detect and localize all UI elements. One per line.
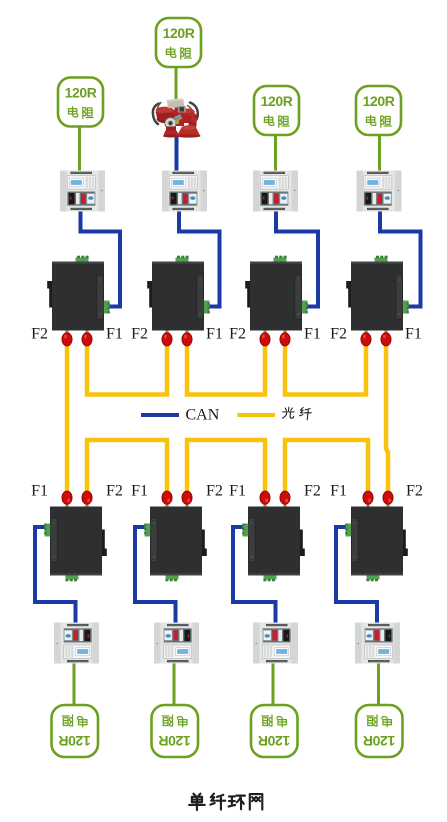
wire 120R box4 to module4 bbox=[378, 133, 381, 172]
svg-text:F2: F2 bbox=[106, 483, 123, 500]
svg-text:F1: F1 bbox=[31, 483, 48, 500]
svg-text:120R: 120R bbox=[65, 85, 97, 101]
120R terminator box 8 bbox=[356, 705, 403, 757]
module 1 bbox=[60, 171, 105, 212]
svg-text:F2: F2 bbox=[229, 326, 246, 343]
wire bconv4 to bmodule4 bbox=[336, 527, 377, 624]
converter 5 bbox=[44, 491, 107, 581]
module 7 bbox=[253, 623, 298, 664]
svg-text:CAN: CAN bbox=[186, 407, 220, 424]
svg-text:F2: F2 bbox=[131, 326, 148, 343]
fiber U top: conv1 F1 to conv2 F2 bbox=[87, 341, 167, 395]
120R terminator box 3 bbox=[254, 86, 299, 135]
wire fire monitor to module2 bbox=[175, 134, 179, 172]
converter 6 bbox=[144, 491, 207, 581]
wire module1 to conv1 bbox=[81, 210, 121, 307]
module 3 bbox=[253, 171, 298, 212]
svg-text:F1: F1 bbox=[405, 326, 422, 343]
wire module3 to conv3 bbox=[276, 210, 318, 307]
120R terminator box 7 bbox=[251, 705, 298, 757]
wire 120R box1 to module1 bbox=[78, 124, 81, 172]
module 2 bbox=[162, 171, 207, 212]
module 5 bbox=[54, 623, 99, 664]
svg-text:F1: F1 bbox=[229, 483, 246, 500]
120R terminator box 6 bbox=[152, 705, 199, 757]
120R terminator box 4 bbox=[356, 86, 401, 135]
svg-text:120R: 120R bbox=[363, 733, 395, 749]
wire bconv1 to bmodule1 bbox=[35, 527, 76, 624]
svg-text:F1: F1 bbox=[106, 326, 123, 343]
converter 2 bbox=[147, 256, 210, 346]
wire 120R box3 to module3 bbox=[274, 133, 277, 172]
svg-text:F2: F2 bbox=[206, 483, 223, 500]
converter 4 bbox=[346, 256, 409, 346]
svg-text:F2: F2 bbox=[304, 483, 321, 500]
converter 3 bbox=[245, 256, 308, 346]
svg-text:F1: F1 bbox=[206, 326, 223, 343]
svg-text:120R: 120R bbox=[363, 93, 395, 109]
legend fiber text 光纤 bbox=[282, 407, 295, 418]
converter 1 bbox=[47, 256, 110, 346]
wire bmodule1 to 120R box5 bbox=[73, 662, 76, 707]
fiber U top: conv2 F1 to conv3 F2 bbox=[187, 341, 265, 395]
wire bmodule3 to 120R box7 bbox=[272, 662, 275, 707]
svg-text:120R: 120R bbox=[59, 733, 91, 749]
wire 120R box2 to fire monitor bbox=[175, 66, 178, 103]
wire bmodule2 to 120R box6 bbox=[173, 662, 176, 707]
wire module4 to conv4 bbox=[380, 210, 421, 307]
120R terminator box 1 bbox=[58, 78, 103, 127]
legend fiber line sample bbox=[238, 413, 276, 417]
120R terminator box 2 bbox=[156, 18, 201, 67]
fiber U bottom: bconv2 F2 to bconv3 F1 bbox=[187, 440, 265, 496]
wire bconv3 to bmodule3 bbox=[233, 527, 276, 624]
svg-text:120R: 120R bbox=[159, 733, 191, 749]
fiber ring left vertical: conv1 F2 to bconv1 F1 bbox=[65, 341, 70, 496]
svg-text:F1: F1 bbox=[131, 483, 148, 500]
fiber ring right vertical: conv4 F1 to bconv4 F2 bbox=[386, 341, 388, 496]
fiber U top: conv3 F1 to conv4 F2 bbox=[285, 341, 366, 395]
fiber U bottom: bconv3 F2 to bconv4 F1 bbox=[285, 440, 368, 496]
wire module2 to conv2 bbox=[179, 210, 220, 307]
svg-text:120R: 120R bbox=[163, 25, 195, 41]
svg-text:F1: F1 bbox=[304, 326, 321, 343]
fiber U bottom: bconv1 F2 to bconv2 F1 bbox=[87, 440, 167, 496]
svg-text:F2: F2 bbox=[406, 483, 423, 500]
fire monitor device bbox=[153, 98, 201, 137]
120R terminator box 5 bbox=[52, 705, 99, 757]
svg-text:F1: F1 bbox=[330, 483, 347, 500]
svg-text:120R: 120R bbox=[258, 733, 290, 749]
module 8 bbox=[355, 623, 400, 664]
svg-text:F2: F2 bbox=[330, 326, 347, 343]
module 6 bbox=[154, 623, 199, 664]
wire bconv2 to bmodule2 bbox=[135, 527, 176, 624]
converter 8 bbox=[345, 491, 408, 581]
wire bmodule4 to 120R box8 bbox=[377, 662, 380, 707]
svg-text:120R: 120R bbox=[261, 93, 293, 109]
module 4 bbox=[357, 171, 402, 212]
svg-text:F2: F2 bbox=[31, 326, 48, 343]
legend CAN line sample bbox=[141, 413, 179, 417]
converter 7 bbox=[242, 491, 305, 581]
